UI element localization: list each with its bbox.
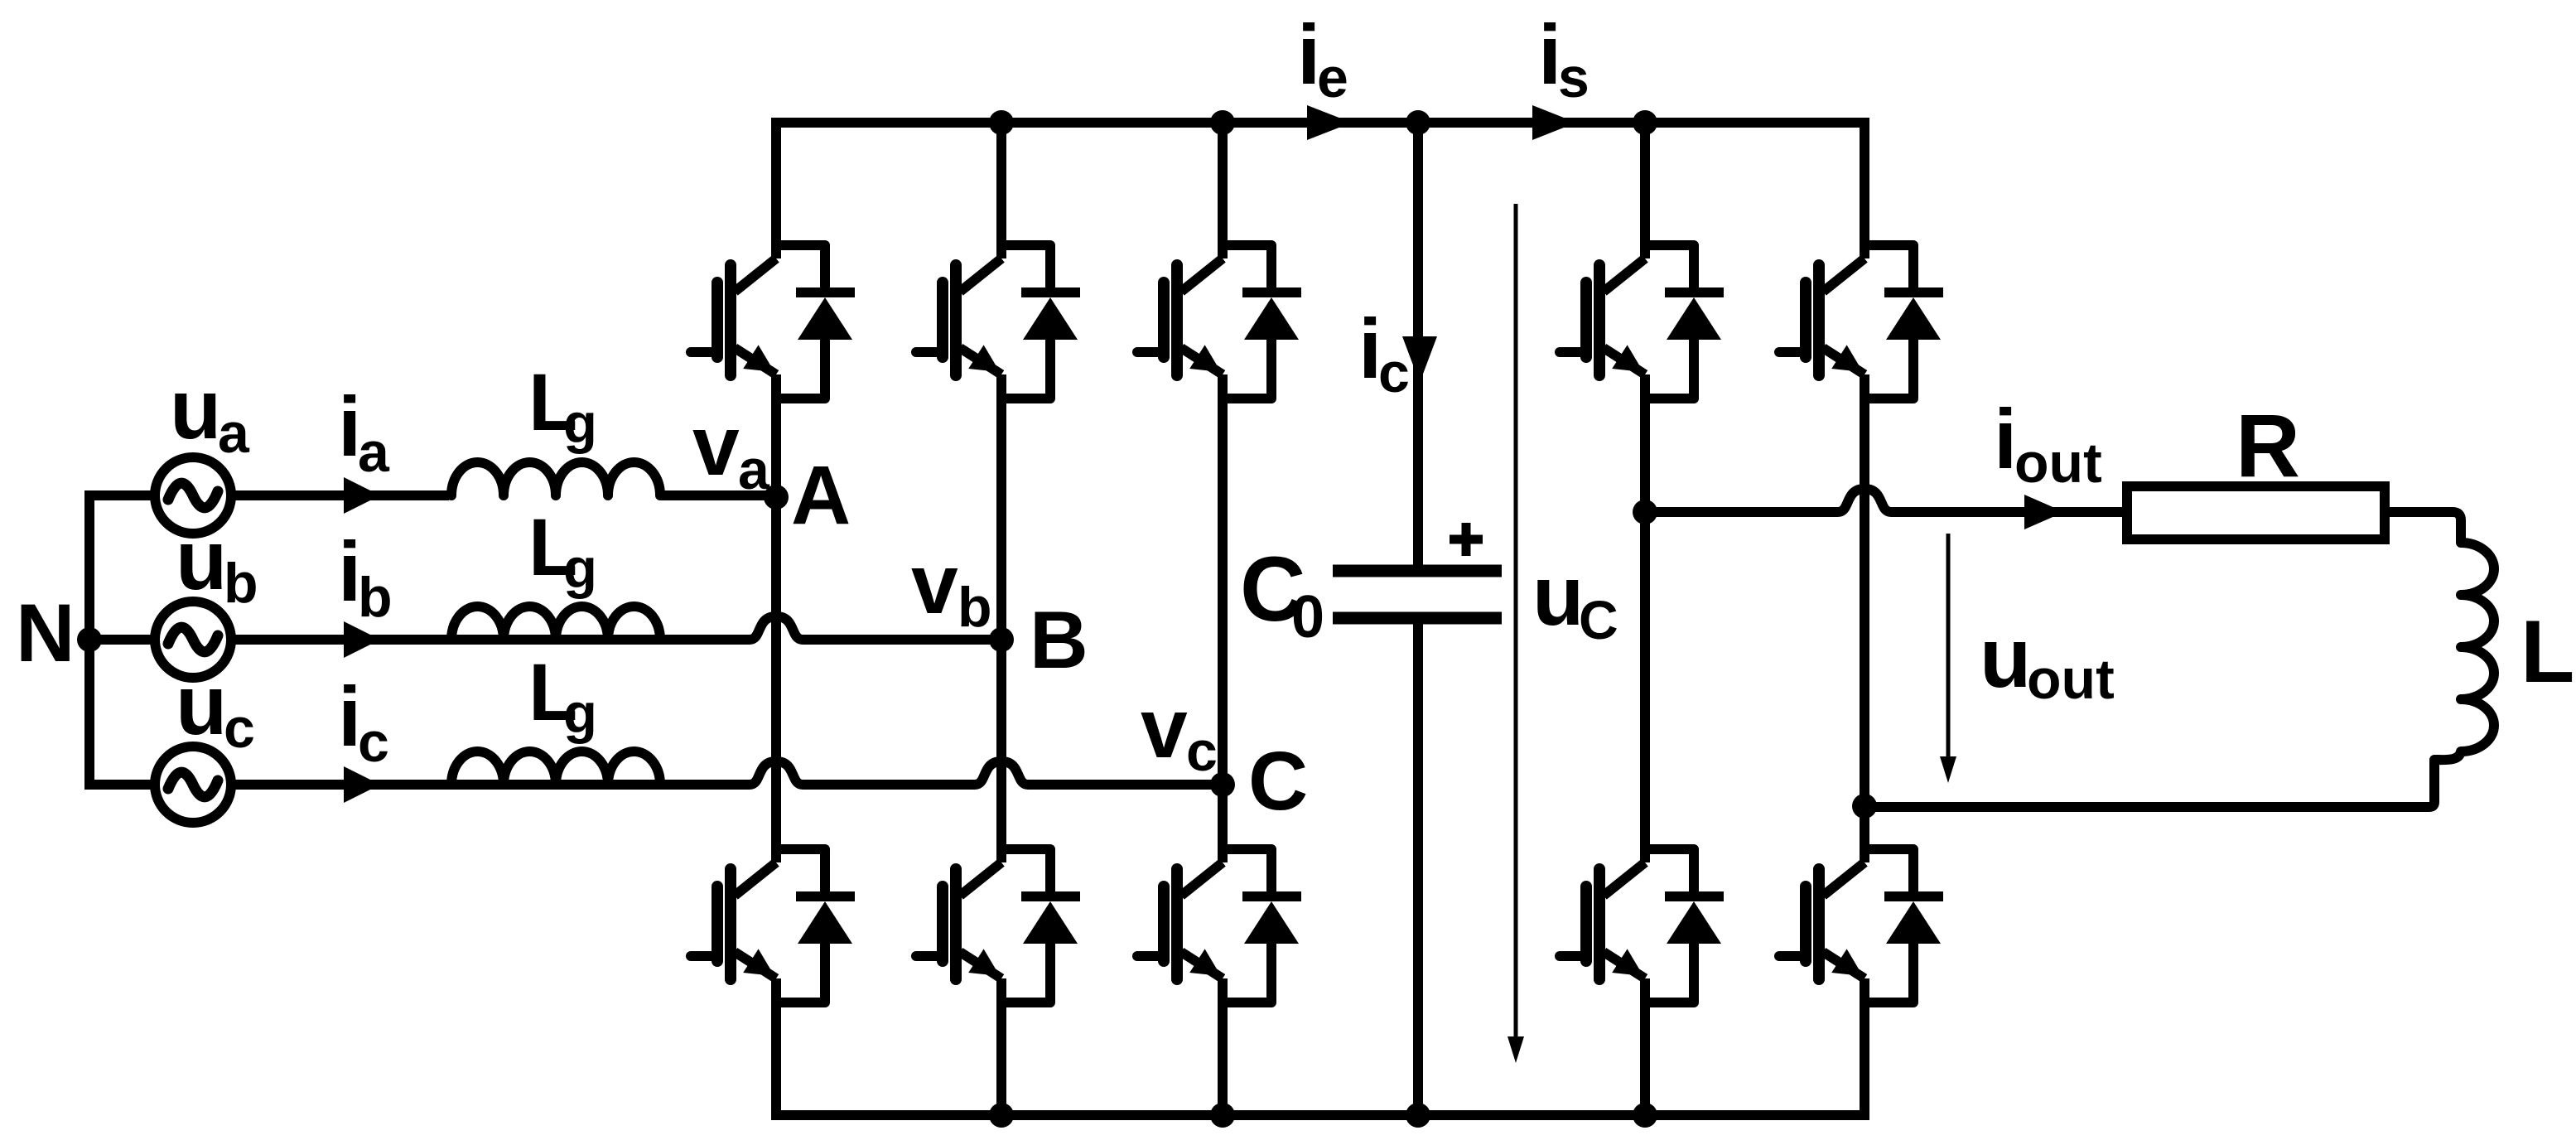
IGBT Q3 (phase B upper) with antiparallel diode: [916, 245, 1080, 399]
source ub sine wave: [168, 627, 218, 652]
inductor Lg (phase b): [451, 606, 660, 640]
svg-text:u: u: [176, 658, 227, 752]
svg-text:a: a: [738, 438, 770, 501]
wire: leg C midsection through node C: [1218, 374, 1228, 862]
source uc sine wave: [168, 772, 218, 797]
current arrow ib: [344, 621, 380, 658]
svg-text:b: b: [224, 552, 258, 615]
svg-text:out: out: [2027, 648, 2115, 711]
wire: leg C top collector lead: [1218, 123, 1228, 258]
resistor R body: [2127, 486, 2385, 539]
IGBT S1 (inverter leg 1 upper) with antiparallel diode: [1560, 245, 1724, 399]
junction bottom rail / leg B: [989, 1103, 1014, 1128]
IGBT Q1 (phase A upper) with antiparallel diode: [691, 245, 855, 399]
svg-text:g: g: [563, 393, 597, 455]
wire: resistor to inductor corner: [2385, 512, 2461, 543]
wire: negative DC rail with corners into phase-A leg and right leg 2: [776, 978, 1864, 1115]
svg-text:N: N: [16, 587, 75, 679]
current arrow iout: [2024, 495, 2064, 529]
junction output node on right leg 2: [1852, 794, 1877, 819]
svg-text:u: u: [176, 513, 227, 607]
wire: neutral bus stub to source ub: [89, 635, 157, 645]
wire: phase b from source ub to node B with hop over leg A: [232, 616, 1001, 640]
wire: leg B top collector lead: [996, 123, 1006, 258]
IGBT Q5 (phase C upper) with antiparallel diode: [1137, 245, 1301, 399]
svg-text:L: L: [2521, 601, 2574, 701]
wire: right leg 1 bottom emitter lead: [1640, 978, 1650, 1115]
junction node N: [77, 627, 102, 652]
junction top rail / right leg 1: [1633, 110, 1657, 135]
svg-text:c: c: [1186, 720, 1218, 783]
svg-text:e: e: [1317, 46, 1348, 109]
svg-text:R: R: [2236, 395, 2300, 495]
capacitor polarity plus sign: [1450, 523, 1483, 556]
svg-text:b: b: [358, 566, 393, 629]
junction output node on right leg 1: [1633, 500, 1657, 524]
junction bottom rail / right leg 1: [1633, 1103, 1657, 1128]
svg-text:c: c: [224, 697, 255, 760]
svg-text:c: c: [358, 711, 389, 774]
IGBT Q4 (phase B lower) with antiparallel diode: [916, 849, 1080, 1002]
capacitor C0 bottom plate: [1333, 612, 1502, 625]
junction node A: [764, 485, 789, 510]
wire: phase a from source ua to inductor: [232, 490, 449, 500]
junction node C: [1210, 772, 1235, 797]
inductor L coil and wire: return line to right leg 2 output node: [1864, 543, 2494, 807]
svg-text:b: b: [958, 576, 992, 639]
junction bottom rail / DC-link: [1406, 1103, 1430, 1128]
voltage arrow line uout: [1946, 534, 1951, 757]
IGBT S4 (inverter leg 2 lower) with antiparallel diode: [1779, 849, 1943, 1002]
svg-text:u: u: [170, 362, 221, 457]
wire: leg A midsection through node A: [771, 374, 781, 862]
current arrow ic (DC-link): [1402, 336, 1437, 383]
capacitor C0 top plate: [1333, 565, 1502, 577]
wire: DC-link branch from capacitor to bottom rail: [1413, 624, 1423, 1115]
svg-text:g: g: [563, 538, 597, 600]
junction top rail / leg B: [989, 110, 1014, 135]
IGBT Q2 (phase A lower) with antiparallel diode: [691, 849, 855, 1002]
wire: phase a from inductor to node A: [661, 490, 776, 500]
svg-text:g: g: [563, 683, 597, 745]
wire: right leg 2 midsection through output node: [1860, 374, 1869, 862]
wire: right leg 1 top collector lead: [1640, 123, 1650, 258]
source ua sine wave: [168, 483, 218, 508]
svg-text:v: v: [1141, 681, 1188, 775]
wire: leg B bottom emitter lead: [996, 978, 1006, 1115]
voltage arrow line uC: [1514, 204, 1518, 1037]
svg-text:c: c: [1378, 341, 1410, 404]
wire: right leg 1 midsection through output node: [1640, 374, 1650, 862]
wire: leg C bottom emitter lead: [1218, 978, 1228, 1115]
wire: positive DC rail with corners into phase-A leg and right leg 2: [776, 123, 1864, 258]
svg-text:C: C: [1579, 589, 1618, 650]
svg-text:A: A: [791, 449, 851, 542]
junction bottom rail / leg C: [1210, 1103, 1235, 1128]
svg-text:0: 0: [1291, 584, 1324, 650]
wire: phase c from source uc to node C with hops over legs A and B: [232, 761, 1223, 785]
source uc circle: [155, 746, 231, 823]
svg-text:u: u: [1980, 611, 2031, 705]
wire: DC-link branch from top rail to capacitor: [1413, 123, 1423, 565]
wire: neutral bus from phase a to phase c: [89, 495, 157, 785]
IGBT S3 (inverter leg 2 upper) with antiparallel diode: [1779, 245, 1943, 399]
junction top rail / leg C: [1210, 110, 1235, 135]
svg-text:a: a: [218, 402, 250, 465]
svg-text:u: u: [1532, 548, 1584, 643]
voltage arrowhead uout: [1940, 756, 1956, 783]
svg-text:s: s: [1558, 46, 1589, 109]
current arrow ic (grid): [344, 766, 380, 803]
svg-text:out: out: [2014, 432, 2102, 495]
junction node B: [989, 627, 1014, 652]
inductor Lg (phase c): [451, 751, 660, 785]
current arrow is: [1532, 105, 1576, 140]
svg-text:v: v: [692, 399, 740, 493]
voltage arrowhead uC: [1507, 1036, 1524, 1063]
inductor Lg (phase a): [451, 462, 660, 495]
svg-text:a: a: [358, 421, 390, 484]
current arrow ia: [344, 477, 380, 514]
IGBT Q6 (phase C lower) with antiparallel diode: [1137, 849, 1301, 1002]
wire: output from right leg 1 to resistor with hop over right leg 2: [1645, 489, 2127, 512]
current arrow ie: [1307, 105, 1352, 140]
IGBT S2 (inverter leg 1 lower) with antiparallel diode: [1560, 849, 1724, 1002]
wire: leg B midsection through node B: [996, 374, 1006, 862]
source ua circle: [155, 457, 231, 534]
svg-text:B: B: [1030, 594, 1088, 685]
junction top rail / DC-link: [1406, 110, 1430, 135]
svg-text:C: C: [1248, 735, 1308, 828]
source ub circle: [155, 601, 231, 678]
svg-text:v: v: [911, 537, 958, 631]
